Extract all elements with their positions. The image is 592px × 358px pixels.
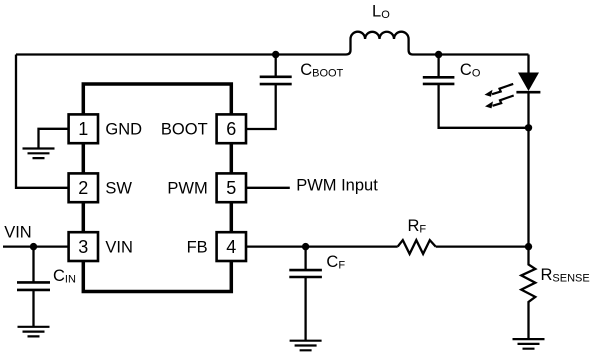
- svg-text:6: 6: [226, 119, 236, 139]
- svg-text:VIN: VIN: [105, 239, 133, 257]
- svg-text:4: 4: [226, 237, 236, 257]
- svg-text:3: 3: [78, 237, 88, 257]
- svg-text:SW: SW: [105, 179, 132, 197]
- svg-text:FB: FB: [187, 239, 208, 257]
- svg-text:PWM: PWM: [167, 179, 207, 197]
- svg-text:PWM Input: PWM Input: [296, 177, 378, 195]
- svg-text:1: 1: [78, 119, 88, 139]
- svg-text:BOOT: BOOT: [161, 120, 208, 138]
- svg-text:5: 5: [226, 178, 236, 198]
- svg-text:VIN: VIN: [4, 224, 32, 242]
- svg-text:2: 2: [78, 178, 88, 198]
- svg-text:GND: GND: [105, 120, 142, 138]
